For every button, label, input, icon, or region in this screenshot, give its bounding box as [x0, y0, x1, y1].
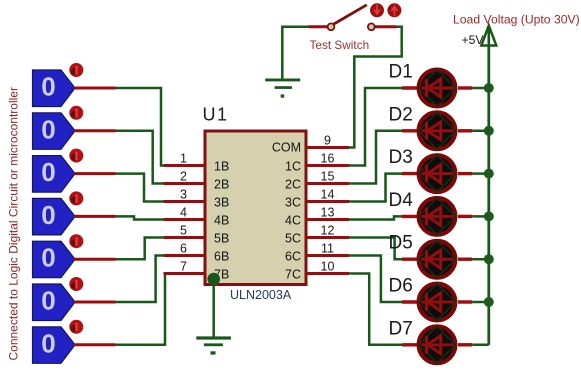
LED D1: [402, 70, 472, 107]
svg-text:U1: U1: [203, 105, 229, 125]
rail junction dot D1: [484, 83, 494, 93]
svg-text:Connected to Logic Digital Cir: Connected to Logic Digital Circuit or mi…: [7, 87, 21, 360]
U1 emitter junction dot (pin 8): [207, 273, 220, 286]
wire LED D7 to +5V rail: [472, 344, 489, 347]
wire U1 2C to LED D2: [349, 131, 403, 184]
wire probe 3 to U1 pin 3: [116, 174, 164, 202]
U1 pin 10 stub (7C): [306, 272, 349, 275]
U1 pin 2 stub (2B): [164, 182, 206, 185]
probe 4 pin stub: [74, 215, 116, 218]
wire LED D3 to +5V rail: [472, 172, 489, 175]
wire probe 6 to U1 pin 6: [116, 256, 164, 303]
switch actuator button up: [387, 3, 401, 17]
LED D6: [402, 284, 472, 321]
svg-text:0: 0: [41, 114, 55, 144]
test switch lever: [333, 5, 367, 25]
svg-text:3: 3: [180, 188, 187, 202]
U1 pin 9 stub (COM): [306, 146, 349, 149]
svg-text:13: 13: [321, 206, 335, 220]
probe 2 toggle button: [69, 106, 83, 120]
svg-text:0: 0: [41, 286, 55, 316]
U1 pin 12 stub (5C): [306, 236, 349, 239]
probe 3 toggle button: [69, 149, 83, 163]
svg-text:COM: COM: [272, 141, 301, 155]
wire U1 4C to LED D4: [349, 216, 403, 219]
svg-text:5B: 5B: [214, 231, 229, 245]
rail junction dot D4: [484, 211, 494, 221]
svg-text:2B: 2B: [214, 177, 229, 191]
U1 pin 16 stub (1C): [306, 164, 349, 167]
svg-text:1C: 1C: [285, 159, 301, 173]
rail junction dot D5: [484, 254, 494, 264]
rail junction dot D6: [484, 297, 494, 307]
svg-text:D4: D4: [389, 190, 414, 211]
wire probe 7 to U1 pin 7: [116, 274, 166, 345]
svg-text:0: 0: [41, 72, 55, 102]
test switch right pin: [368, 23, 375, 30]
rail junction dot D2: [484, 126, 494, 136]
svg-text:D1: D1: [389, 62, 413, 83]
IC U1 ULN2003A body: [205, 131, 306, 285]
U1 pin 3 stub (3B): [164, 200, 206, 203]
svg-text:0: 0: [41, 200, 55, 230]
rail junction dot D3: [484, 169, 494, 179]
svg-text:D2: D2: [389, 104, 413, 125]
logic state probe 1 (input 0): [33, 70, 76, 107]
logic state probe 4 (input 0): [33, 198, 76, 235]
svg-text:2: 2: [180, 170, 187, 184]
U1 pin 7 stub (7B): [164, 272, 206, 275]
wire U1 1C to LED D1: [349, 88, 403, 166]
probe 7 toggle button: [69, 320, 83, 334]
switch actuator button down: [370, 3, 384, 17]
U1 pin 5 stub (5B): [164, 236, 206, 239]
LED D2: [402, 112, 472, 149]
test switch right pin stub: [375, 25, 397, 28]
wire LED D6 to +5V rail: [472, 301, 489, 304]
wire LED D5 to +5V rail: [472, 258, 489, 261]
probe 4 toggle button: [69, 191, 83, 205]
probe 6 toggle button: [69, 277, 83, 291]
svg-text:12: 12: [321, 224, 335, 238]
svg-text:4: 4: [180, 206, 187, 220]
wire U1 3C to LED D3: [349, 174, 403, 202]
wire U1 5C to LED D5: [349, 238, 403, 260]
svg-text:5: 5: [180, 224, 187, 238]
logic state probe 5 (input 0): [33, 241, 76, 278]
probe 5 pin stub: [74, 258, 116, 261]
wire probe 5 to U1 pin 5: [116, 238, 164, 260]
probe 2 pin stub: [74, 129, 116, 132]
+5V supply rail: [487, 45, 490, 345]
LED D5: [402, 241, 472, 278]
svg-text:10: 10: [321, 260, 335, 274]
svg-text:1B: 1B: [214, 159, 229, 173]
+5V power terminal arrow: [481, 26, 496, 47]
wire probe 4 to U1 pin 4: [116, 216, 164, 219]
test switch left pin stub: [309, 25, 329, 28]
svg-text:9: 9: [324, 134, 331, 148]
svg-text:D5: D5: [389, 233, 413, 254]
U1 pin 15 stub (2C): [306, 182, 349, 185]
wire switch right pin to U1 COM: [349, 27, 402, 148]
LED D7: [402, 326, 472, 363]
svg-text:15: 15: [321, 170, 335, 184]
wire LED D2 to +5V rail: [472, 130, 489, 133]
wire probe 2 to U1 pin 2: [116, 131, 164, 184]
logic state probe 7 (input 0): [33, 327, 76, 364]
svg-text:14: 14: [321, 188, 335, 202]
svg-text:11: 11: [321, 242, 334, 256]
wire probe 1 to U1 pin 1: [116, 88, 164, 166]
wire U1 emitter to ground: [212, 279, 215, 338]
LED D4: [402, 198, 472, 235]
LED D3: [402, 155, 472, 192]
wire LED D1 to +5V rail: [472, 87, 489, 90]
svg-text:7: 7: [180, 260, 187, 274]
svg-text:6C: 6C: [285, 249, 301, 263]
U1 pin 11 stub (6C): [306, 254, 349, 257]
svg-text:ULN2003A: ULN2003A: [230, 288, 292, 302]
wire switch left pin to ground: [282, 27, 308, 79]
svg-text:3B: 3B: [214, 195, 229, 209]
svg-text:0: 0: [41, 328, 55, 358]
svg-text:D3: D3: [389, 147, 413, 168]
probe 6 pin stub: [74, 301, 116, 304]
probe 1 pin stub: [74, 87, 116, 90]
test switch left pin: [328, 23, 335, 30]
probe 5 toggle button: [69, 234, 83, 248]
svg-text:0: 0: [41, 243, 55, 273]
wire U1 7C to LED D7: [349, 274, 403, 345]
ground symbol below U1: [196, 336, 231, 354]
probe 3 pin stub: [74, 172, 116, 175]
svg-text:6: 6: [180, 242, 187, 256]
svg-text:16: 16: [321, 152, 335, 166]
svg-text:Load Voltag (Upto 30V): Load Voltag (Upto 30V): [453, 13, 580, 27]
svg-text:D7: D7: [389, 318, 413, 339]
logic state probe 2 (input 0): [33, 113, 76, 150]
U1 pin 13 stub (4C): [306, 218, 349, 221]
svg-text:6B: 6B: [214, 249, 229, 263]
svg-text:2C: 2C: [285, 177, 301, 191]
logic state probe 6 (input 0): [33, 284, 76, 321]
U1 pin 14 stub (3C): [306, 200, 349, 203]
probe 7 pin stub: [74, 343, 116, 346]
wire LED D4 to +5V rail: [472, 215, 489, 218]
probe 1 toggle button: [69, 63, 83, 77]
svg-text:1: 1: [180, 152, 187, 166]
svg-text:7C: 7C: [285, 267, 301, 281]
svg-text:4B: 4B: [214, 213, 229, 227]
U1 pin 4 stub (4B): [164, 218, 206, 221]
U1 pin 1 stub (1B): [164, 164, 206, 167]
ground symbol below switch: [265, 79, 300, 98]
svg-text:4C: 4C: [285, 213, 301, 227]
wire U1 6C to LED D6: [349, 256, 403, 303]
U1 pin 6 stub (6B): [164, 254, 206, 257]
svg-text:3C: 3C: [285, 195, 301, 209]
logic state probe 3 (input 0): [33, 156, 76, 193]
svg-text:5C: 5C: [285, 231, 301, 245]
svg-text:D6: D6: [389, 276, 413, 297]
svg-text:0: 0: [41, 157, 55, 187]
svg-text:Test Switch: Test Switch: [310, 38, 370, 52]
